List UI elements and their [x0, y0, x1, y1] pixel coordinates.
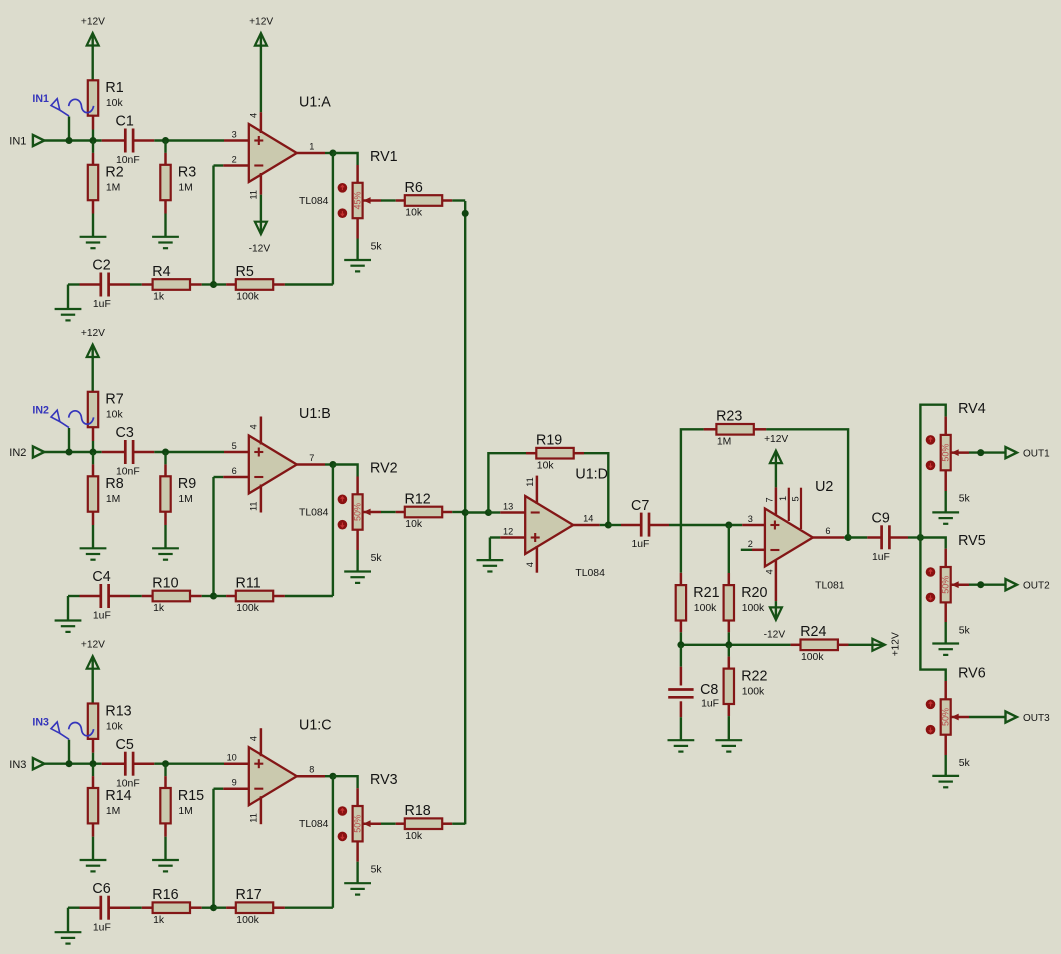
wire RV1 to ground	[356, 239, 358, 260]
wire to R5	[214, 283, 227, 285]
svg-text:U2: U2	[815, 479, 833, 495]
node output U1:C	[329, 773, 336, 780]
wire IN3 rail	[44, 763, 101, 765]
svg-text:10: 10	[227, 753, 237, 763]
wire C7 pin right	[649, 524, 669, 527]
wire pin R15 bottom	[164, 823, 167, 836]
svg-text:1M: 1M	[106, 183, 120, 194]
wire C6 to R16	[130, 907, 142, 909]
svg-text:U1:C: U1:C	[299, 718, 332, 734]
svg-text:R19: R19	[536, 433, 562, 449]
wire R22 pin bottom	[728, 704, 731, 716]
svg-text:4: 4	[249, 113, 259, 118]
svg-text:1M: 1M	[717, 437, 731, 448]
capacitor C9	[872, 511, 890, 563]
resistor R22	[724, 669, 768, 705]
wire R24 pin left	[791, 644, 801, 647]
wire out U1:D	[600, 524, 609, 526]
svg-text:13: 13	[503, 501, 513, 511]
svg-text:IN2: IN2	[32, 405, 49, 417]
wire C4 out	[109, 595, 130, 598]
ground under C4	[55, 621, 82, 632]
svg-text:45%: 45%	[353, 191, 363, 209]
svg-text:6: 6	[232, 466, 237, 476]
svg-text:3: 3	[232, 129, 237, 139]
wire feedback vertical ch3	[212, 789, 214, 908]
wire R4 to node	[202, 283, 214, 285]
svg-text:4: 4	[249, 424, 259, 429]
wire C2 to R4	[130, 283, 142, 285]
node U2 pin 3	[725, 522, 732, 529]
wire R17 out	[273, 906, 285, 909]
wire C1 to op-amp	[154, 139, 224, 141]
wire R12 to bus	[452, 511, 465, 513]
ground U1:D pin 12	[477, 560, 504, 571]
node IN3 B	[90, 760, 97, 767]
node bus R6	[462, 210, 469, 217]
wire out U2	[844, 536, 848, 538]
wire RV2 to ground	[356, 550, 358, 571]
potentiometer RV3	[338, 772, 398, 876]
wire R5 pin	[226, 283, 236, 286]
wire R8 top	[92, 452, 94, 464]
svg-text:+12V: +12V	[764, 434, 788, 445]
wire feedback vertical ch1	[212, 166, 214, 285]
wire C4 ground drop	[67, 596, 69, 620]
ground under RV3	[344, 883, 371, 894]
wire RV5 bottom pin	[944, 602, 947, 622]
wire R21 pin top	[680, 573, 683, 585]
wire R16 to node	[202, 907, 214, 909]
wire output to R5	[332, 153, 334, 285]
svg-text:R13: R13	[105, 703, 131, 719]
wire RV3 bottom pin	[356, 841, 359, 861]
svg-text:11: 11	[249, 501, 259, 511]
wire pin R2 bottom	[92, 200, 95, 213]
wire pin 10	[224, 762, 249, 765]
wire R1 to node	[92, 130, 94, 141]
svg-text:TL084: TL084	[299, 196, 329, 207]
potentiometer RV4	[926, 401, 986, 505]
wire R14 top	[92, 764, 94, 776]
wire R15 to ground	[164, 837, 166, 860]
power +12V (R1)	[81, 17, 105, 46]
svg-text:RV6: RV6	[958, 666, 986, 682]
wire out ch1	[325, 152, 333, 154]
wire pin R3 bottom	[164, 200, 167, 213]
wire -12V rail	[681, 644, 791, 646]
resistor R12	[405, 491, 443, 530]
wire terminal IN1 drop	[68, 117, 70, 141]
wire pin 1 out	[297, 152, 325, 155]
svg-text:100k: 100k	[801, 652, 824, 663]
wire C6 pin	[80, 906, 101, 909]
wire C8 pin bottom	[680, 701, 683, 717]
svg-text:R12: R12	[405, 491, 431, 507]
ground under RV6	[932, 776, 959, 787]
wire pin 3	[224, 139, 249, 142]
wire pin 4 stub U2	[775, 561, 778, 602]
wire R12 out	[442, 511, 452, 514]
port IN1	[9, 135, 44, 148]
svg-text:1M: 1M	[178, 806, 192, 817]
port OUT1	[1006, 447, 1051, 459]
svg-text:R23: R23	[716, 409, 742, 425]
svg-text:R22: R22	[741, 669, 767, 685]
power +12V (R7)	[81, 328, 105, 357]
wire C2 out	[109, 283, 130, 286]
wire U1:A pin 11 to -12V	[260, 195, 262, 234]
potentiometer RV6	[926, 666, 986, 770]
op-amp U1:A	[232, 95, 332, 208]
wire R2 to ground	[92, 214, 94, 237]
svg-text:IN3: IN3	[32, 716, 49, 728]
wire R13 to node	[92, 753, 94, 764]
wire to RV6	[920, 538, 945, 682]
wire R23 to R21	[681, 429, 704, 573]
wire RV6 to ground	[945, 755, 947, 776]
power +12V (U2)	[764, 434, 788, 463]
ground under RV5	[932, 644, 959, 655]
wire RV4 wiper	[951, 451, 969, 454]
wire pin 2	[214, 164, 224, 166]
wire summing bus	[464, 201, 466, 824]
resistor R7	[88, 392, 124, 427]
node C1/R3	[162, 137, 169, 144]
wire output to RV2	[333, 465, 358, 477]
svg-text:50%: 50%	[941, 708, 951, 726]
svg-text:R17: R17	[236, 887, 262, 903]
wire pin R1 top	[91, 80, 94, 93]
wire to R17	[214, 907, 227, 909]
wire C1 out	[133, 139, 154, 142]
ground under R9	[152, 548, 179, 559]
wire R4 pin	[142, 283, 153, 286]
svg-text:C5: C5	[116, 737, 134, 753]
potentiometer RV5	[926, 533, 986, 637]
node IN3 A	[66, 760, 73, 767]
wire output to R17	[332, 776, 334, 908]
svg-text:7: 7	[765, 497, 775, 502]
svg-text:1k: 1k	[153, 915, 165, 926]
wire R22 to ground	[728, 716, 730, 740]
node C3/R9	[162, 449, 169, 456]
wire feedback to R19	[488, 453, 526, 512]
wire pin R9	[164, 464, 167, 476]
svg-text:1: 1	[309, 141, 314, 151]
wire +12V to R7	[91, 345, 93, 391]
svg-text:TL081: TL081	[815, 581, 845, 592]
wire R21 pin bottom	[680, 621, 683, 633]
wire to RV4	[920, 405, 945, 538]
wire C9 to pots	[908, 536, 920, 538]
svg-text:R7: R7	[105, 392, 123, 408]
wire pin R8	[92, 464, 95, 476]
port OUT2	[1006, 579, 1051, 591]
svg-text:100k: 100k	[694, 603, 717, 614]
resistor R8	[88, 476, 124, 511]
resistor R14	[88, 788, 132, 824]
wire to C3	[102, 451, 126, 454]
wire RV3 wiper	[363, 822, 381, 825]
capacitor C5	[116, 737, 140, 789]
wire C7 pin left	[621, 524, 641, 527]
wire R19 pin right	[573, 452, 584, 455]
pin 1 stub U2	[788, 488, 790, 521]
node U1:D input	[485, 509, 492, 516]
wire RV3 to ground	[356, 862, 358, 883]
wire R10 to node	[202, 595, 214, 597]
resistor R6	[405, 180, 443, 219]
wire out ch3	[325, 775, 333, 777]
svg-text:7: 7	[309, 453, 314, 463]
node feedback ch1	[210, 281, 217, 288]
node feedback ch3	[210, 904, 217, 911]
wire C6 left	[68, 907, 80, 909]
wire pin 11 stub U1:C	[260, 796, 263, 824]
power -12V (U2)	[764, 607, 786, 640]
wire output to RV1	[333, 153, 358, 165]
svg-text:+12V: +12V	[81, 17, 105, 28]
svg-text:11: 11	[249, 190, 259, 200]
svg-text:R16: R16	[152, 887, 178, 903]
svg-text:1uF: 1uF	[872, 552, 890, 563]
wire pin 9 stub	[223, 787, 249, 790]
svg-text:100k: 100k	[742, 603, 765, 614]
capacitor C6	[92, 881, 110, 933]
resistor R23	[716, 409, 754, 448]
svg-text:TL084: TL084	[299, 819, 329, 830]
resistor R24	[800, 624, 838, 663]
wire R21 to rail	[680, 632, 682, 645]
wire C5 out	[133, 762, 154, 765]
ground under RV4	[932, 512, 959, 523]
wire to R11	[214, 595, 227, 597]
wire RV4 top pin	[944, 417, 947, 435]
capacitor C4	[92, 569, 110, 621]
signal terminal IN3	[32, 716, 93, 739]
node IN1 B	[90, 137, 97, 144]
wire R18 pin	[396, 822, 406, 825]
wire RV1 bottom pin	[356, 218, 359, 238]
wire pin 13	[488, 511, 500, 513]
capacitor C7	[631, 498, 649, 550]
wire pin 11 stub U1:D	[536, 476, 539, 504]
wire pin R14 bottom	[92, 823, 95, 836]
svg-text:100k: 100k	[236, 603, 259, 614]
wire C2 ground drop	[67, 285, 69, 309]
op-amp U1:C	[227, 718, 332, 831]
node C9 output	[917, 534, 924, 541]
svg-text:R4: R4	[152, 264, 170, 280]
svg-text:-12V: -12V	[764, 629, 786, 640]
ground under R8	[80, 548, 107, 559]
wire R14 to ground	[92, 837, 94, 860]
wire R8 to ground	[92, 525, 94, 548]
op-amp U1:B	[232, 406, 331, 519]
svg-text:5: 5	[232, 441, 237, 451]
wire terminal IN3 drop	[68, 740, 70, 764]
svg-text:R21: R21	[693, 585, 719, 601]
wire pin R15	[164, 776, 167, 788]
svg-text:C3: C3	[116, 425, 134, 441]
wire RV2 bottom pin	[356, 530, 359, 550]
wire to C9	[848, 536, 867, 538]
svg-text:100k: 100k	[742, 687, 765, 698]
wire rail to C8	[680, 645, 682, 667]
wire pin R13 bottom	[92, 739, 95, 753]
port IN3	[9, 758, 44, 771]
signal terminal IN1	[32, 93, 93, 116]
svg-text:1uF: 1uF	[632, 539, 650, 550]
svg-text:R6: R6	[405, 180, 423, 196]
wire output to R11	[332, 465, 334, 597]
ground under R2	[80, 237, 107, 248]
svg-text:5k: 5k	[371, 865, 383, 876]
wire RV4 bottom pin	[944, 470, 947, 491]
capacitor C1	[116, 114, 140, 166]
wire C8 pin top	[680, 667, 683, 686]
wire pin 7 stub	[775, 487, 778, 515]
wire to C5	[102, 762, 126, 765]
wire R5 out	[273, 283, 285, 286]
wire U2 pin 4 to -12V	[775, 601, 777, 619]
svg-text:6: 6	[825, 526, 830, 536]
svg-text:C8: C8	[700, 682, 718, 698]
wire R17 to output	[285, 907, 333, 909]
resistor R3	[160, 165, 196, 201]
wire R4 out	[190, 283, 202, 286]
svg-text:1M: 1M	[178, 183, 192, 194]
svg-text:U1:D: U1:D	[575, 467, 608, 483]
svg-text:2: 2	[748, 539, 753, 549]
svg-text:5k: 5k	[371, 553, 383, 564]
wire R6 pin	[396, 199, 406, 202]
wire wiper to OUT1	[969, 451, 1006, 453]
resistor R21	[676, 585, 720, 621]
ground under RV2	[344, 572, 371, 583]
wire C6 out	[109, 906, 130, 909]
wire R9 top	[164, 452, 166, 464]
wire output to RV3	[333, 776, 358, 788]
svg-text:TL084: TL084	[299, 508, 329, 519]
wire R20 to rail	[728, 632, 730, 645]
wire rail to R22	[728, 645, 730, 657]
wire pin 11 stub U1:B	[260, 485, 263, 513]
wire RV6 top pin	[944, 681, 947, 699]
svg-text:11: 11	[249, 813, 259, 823]
wire pin 12	[490, 536, 500, 538]
wire R20 pin bottom	[728, 621, 731, 633]
node output U1:D	[605, 522, 612, 529]
wire C3 to op-amp	[154, 451, 224, 453]
capacitor C2	[92, 258, 110, 310]
svg-text:RV2: RV2	[370, 461, 398, 477]
svg-text:10k: 10k	[405, 831, 423, 842]
wire R3 to ground	[164, 214, 166, 237]
wire pin 11 U1:A	[260, 173, 263, 195]
svg-text:4: 4	[249, 736, 259, 741]
wire pin 4 U1:A	[260, 112, 263, 133]
wire +12V to U1:A pin 4	[260, 34, 262, 113]
wire IN1 rail	[44, 139, 101, 141]
wire R18 out	[442, 822, 452, 825]
port OUT3	[1006, 711, 1051, 723]
resistor R20	[724, 585, 768, 621]
node output U1:A	[329, 150, 336, 157]
wire C4 to R10	[130, 595, 142, 597]
svg-text:14: 14	[583, 513, 593, 523]
wire pin 2 stub	[752, 549, 765, 552]
svg-text:1uF: 1uF	[93, 922, 111, 933]
wire +12V to U2 pin 7	[775, 451, 777, 487]
svg-text:RV4: RV4	[958, 401, 986, 417]
potentiometer RV2	[338, 461, 398, 565]
svg-text:C1: C1	[116, 114, 134, 130]
pin 5 stub U2	[800, 488, 802, 529]
resistor R11	[236, 575, 274, 614]
wire R22 pin top	[728, 657, 731, 669]
wire R10 pin	[142, 595, 153, 598]
svg-text:10k: 10k	[106, 410, 124, 421]
wire pin 12 stub	[500, 536, 525, 539]
wire pin 14 out	[573, 524, 600, 527]
wire pin R3	[164, 153, 167, 165]
svg-text:10k: 10k	[405, 208, 423, 219]
svg-text:5: 5	[791, 496, 801, 501]
svg-text:RV1: RV1	[370, 149, 398, 165]
wire R15 top	[164, 764, 166, 776]
svg-text:R15: R15	[178, 788, 204, 804]
svg-text:100k: 100k	[236, 292, 259, 303]
svg-text:2: 2	[232, 154, 237, 164]
resistor R9	[160, 476, 196, 511]
svg-text:10k: 10k	[106, 721, 124, 732]
wire RV2 wiper	[363, 511, 381, 514]
wire wiper to R12	[381, 511, 396, 513]
wire C5 to op-amp	[154, 763, 224, 765]
wire to RV5	[920, 538, 945, 549]
svg-text:12: 12	[503, 526, 513, 536]
wire pin 4 stub U1:B	[260, 417, 263, 445]
node rail C8	[677, 641, 684, 648]
wire RV4 to ground	[945, 491, 947, 512]
wire R2 top	[92, 141, 94, 153]
wire R19 to output	[584, 453, 608, 525]
svg-text:U1:A: U1:A	[299, 95, 331, 111]
wire C9 pin left	[867, 536, 881, 539]
svg-text:R10: R10	[152, 575, 178, 591]
wire pin R8 bottom	[92, 512, 95, 525]
ground under C8	[668, 740, 695, 751]
potentiometer RV1	[338, 149, 398, 253]
power -12V (U1:A)	[249, 222, 271, 255]
svg-text:IN1: IN1	[32, 93, 49, 105]
resistor R2	[88, 165, 124, 201]
svg-text:1: 1	[778, 496, 788, 501]
wire RV2 top pin	[356, 477, 359, 495]
svg-text:U1:B: U1:B	[299, 406, 331, 422]
wire pin 9	[214, 788, 224, 790]
wire RV6 wiper	[951, 716, 969, 719]
wire R7 to node	[92, 441, 94, 452]
svg-text:R5: R5	[236, 264, 254, 280]
node feedback ch2	[210, 593, 217, 600]
wire RV5 top pin	[944, 549, 947, 567]
signal terminal IN2	[32, 405, 93, 428]
svg-text:100k: 100k	[236, 915, 259, 926]
wire terminal IN2 drop	[68, 428, 70, 452]
